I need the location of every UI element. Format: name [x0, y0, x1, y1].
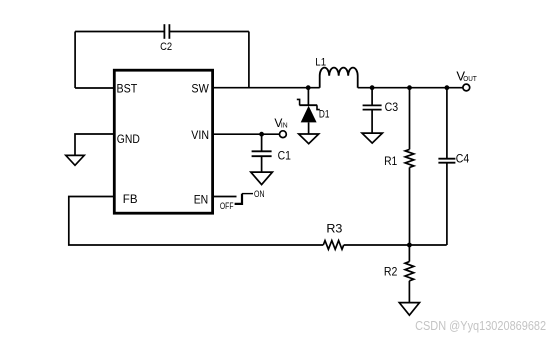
node R1 junction — [407, 85, 412, 90]
resistor R2 — [405, 262, 414, 281]
node C1 junction — [259, 132, 264, 137]
wire top to C2 left plate — [75, 31, 164, 33]
svg-text:C1: C1 — [278, 151, 291, 163]
svg-text:CSDN @Yyq13020869682: CSDN @Yyq13020869682 — [415, 318, 546, 333]
svg-text:C2: C2 — [160, 41, 172, 53]
wire right riser down to SW net — [248, 32, 250, 88]
svg-text:SW: SW — [191, 81, 209, 95]
op-amp U1 (regulator IC box) — [114, 70, 212, 213]
svg-text:OFF: OFF — [220, 201, 234, 211]
capacitor C2 — [164, 24, 169, 39]
wire C4 bottom — [446, 163, 448, 245]
svg-text:IN: IN — [281, 123, 288, 130]
wire R1 top — [409, 88, 411, 150]
svg-text:D1: D1 — [319, 109, 330, 121]
label VOUT — [456, 69, 477, 84]
wire BST pin to left riser — [75, 87, 114, 89]
svg-text:R2: R2 — [384, 267, 398, 279]
wire R2 top — [408, 245, 410, 262]
wire C3 to ground — [371, 110, 373, 134]
wire R3 to C4 corner — [344, 244, 447, 246]
diode D1 (schottky) — [297, 88, 320, 134]
svg-text:L1: L1 — [315, 57, 326, 69]
node C3 junction — [370, 85, 375, 90]
node SW/D1 junction — [306, 85, 311, 90]
node FB/R2 junction — [407, 243, 412, 248]
svg-text:R1: R1 — [384, 156, 397, 168]
wire EN pin — [213, 196, 237, 198]
resistor R3 — [323, 241, 343, 250]
ground (GND pin) — [66, 155, 84, 165]
node C4 junction — [445, 85, 450, 90]
svg-text:OUT: OUT — [463, 74, 477, 83]
ground (D1) — [299, 134, 319, 144]
wire FB pin loop down — [69, 197, 323, 246]
wire SW pin to L1 — [213, 87, 320, 89]
svg-text:ON: ON — [254, 189, 265, 199]
wire C2 right plate to right riser — [169, 31, 249, 33]
wire GND pin to left — [75, 134, 114, 155]
svg-text:FB: FB — [123, 192, 138, 206]
capacitor C4 — [438, 159, 455, 163]
ground (C1) — [251, 172, 273, 185]
svg-text:BST: BST — [117, 81, 138, 95]
wire L1 to VOUT terminal — [358, 87, 463, 89]
svg-text:C4: C4 — [456, 154, 470, 166]
capacitor C3 — [363, 105, 382, 109]
label VIN terminal — [274, 116, 287, 130]
wire R2 to ground — [408, 281, 410, 303]
capacitor C1 — [252, 151, 272, 156]
svg-text:C3: C3 — [385, 102, 399, 114]
wire VIN node down to C1 — [261, 134, 263, 150]
resistor R1 — [405, 149, 414, 167]
wire left riser up to C2 — [74, 32, 76, 89]
terminal VOUT — [463, 84, 470, 91]
inductor L1 — [320, 68, 358, 88]
ground (R2) — [399, 303, 419, 316]
svg-text:R3: R3 — [326, 224, 342, 236]
switch EN on/off — [235, 194, 253, 204]
svg-text:EN: EN — [194, 193, 209, 207]
wire VIN pin to terminal — [213, 133, 280, 135]
svg-text:GND: GND — [117, 132, 140, 146]
wire R1 bottom — [409, 167, 411, 245]
wire C3 from VOUT net — [371, 88, 373, 105]
svg-text:VIN: VIN — [191, 128, 209, 142]
ground (C3) — [362, 133, 382, 143]
wire C1 to ground — [261, 156, 263, 172]
wire C4 top — [446, 88, 448, 159]
terminal VIN — [280, 131, 287, 138]
